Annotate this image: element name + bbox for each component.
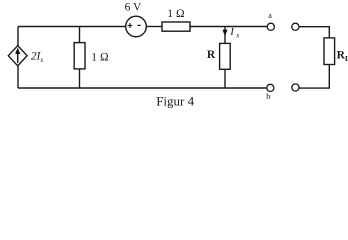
svg-text:b: b	[266, 91, 270, 101]
svg-text:6 V: 6 V	[125, 2, 142, 14]
svg-text:x: x	[39, 56, 44, 64]
svg-text:a: a	[268, 11, 272, 20]
svg-text:R: R	[207, 49, 216, 61]
svg-text:I: I	[229, 26, 235, 38]
svg-text:x: x	[235, 32, 240, 40]
svg-text:Figur 4: Figur 4	[156, 93, 194, 108]
svg-text:1 Ω: 1 Ω	[167, 8, 185, 20]
svg-text:1 Ω: 1 Ω	[91, 51, 109, 63]
